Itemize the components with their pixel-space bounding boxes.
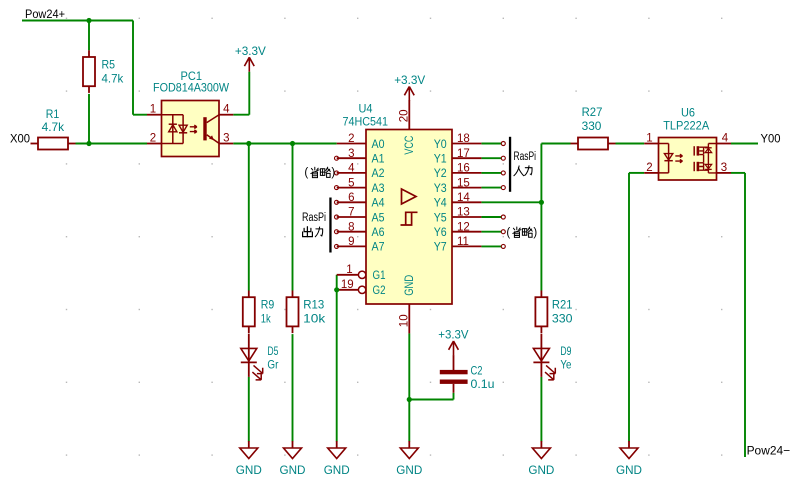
label +3.3V (C2) bbox=[438, 328, 468, 342]
svg-text:): ) bbox=[533, 227, 537, 239]
svg-text:5: 5 bbox=[348, 177, 354, 189]
label C2 bbox=[471, 363, 483, 377]
svg-text:Y6: Y6 bbox=[434, 227, 447, 239]
svg-text:1k: 1k bbox=[261, 312, 272, 326]
pin number 1 U6 bbox=[646, 132, 652, 144]
wire U4 pin10 to GND bbox=[408, 333, 410, 441]
svg-text:4: 4 bbox=[348, 163, 355, 175]
svg-text:Pow24−: Pow24− bbox=[747, 443, 791, 457]
svg-text:3: 3 bbox=[223, 132, 229, 144]
label R21 bbox=[552, 297, 573, 311]
wire R13 to GND bbox=[292, 334, 294, 441]
svg-text:Pow24+: Pow24+ bbox=[25, 7, 65, 21]
pin number 1 PC1 bbox=[150, 104, 156, 116]
wire R5 bottom to node bbox=[88, 94, 90, 144]
U4 pin numbers bbox=[341, 110, 470, 328]
note RasPi out bracket bbox=[329, 198, 331, 253]
svg-text:330: 330 bbox=[552, 312, 573, 326]
svg-text:Y1: Y1 bbox=[434, 154, 447, 166]
svg-text:GND: GND bbox=[404, 275, 416, 296]
label R13 value 10k bbox=[303, 312, 326, 326]
svg-text:10: 10 bbox=[398, 314, 410, 327]
svg-text:X00: X00 bbox=[10, 132, 30, 146]
power +3.3V (C2) bbox=[449, 341, 459, 355]
wire Y4 to node bbox=[481, 201, 541, 203]
junction R1/R5 node bbox=[86, 141, 91, 146]
wire D9 to GND bbox=[540, 377, 542, 442]
svg-text:1: 1 bbox=[346, 264, 352, 276]
svg-text:3: 3 bbox=[721, 162, 727, 174]
svg-text:D9: D9 bbox=[560, 344, 571, 358]
svg-text:20: 20 bbox=[398, 110, 410, 123]
pin number 2 PC1 bbox=[150, 132, 156, 144]
svg-text:A0: A0 bbox=[372, 139, 385, 151]
wire U6 pin2 to GND bbox=[629, 173, 644, 442]
svg-text:9: 9 bbox=[348, 236, 354, 248]
svg-text:13: 13 bbox=[457, 207, 470, 219]
wire corner to PC1 pin1 bbox=[133, 21, 147, 115]
label D5 bbox=[267, 344, 278, 358]
resistor R9 bbox=[243, 291, 255, 334]
optocoupler PC1 bbox=[147, 101, 233, 157]
svg-text:A6: A6 bbox=[372, 227, 385, 239]
svg-text:18: 18 bbox=[457, 133, 470, 145]
pin number 2 U6 bbox=[646, 162, 652, 174]
wire R27 to U6 pin1 bbox=[616, 143, 645, 145]
svg-text:U6: U6 bbox=[681, 105, 695, 119]
svg-text:G1: G1 bbox=[373, 270, 386, 282]
svg-text:4.7k: 4.7k bbox=[42, 120, 65, 134]
label D9 value Ye bbox=[560, 357, 571, 371]
svg-text:GND: GND bbox=[616, 463, 642, 477]
ground GND D9 bbox=[528, 441, 554, 477]
wire node to R13 bbox=[292, 144, 294, 291]
svg-text:TLP222A: TLP222A bbox=[663, 118, 709, 132]
svg-text:GND: GND bbox=[280, 463, 306, 477]
svg-text:14: 14 bbox=[457, 192, 470, 204]
junction Pow24+/R5 bbox=[86, 18, 91, 23]
junction R13 tap bbox=[290, 141, 295, 146]
wire node up to R27 bbox=[541, 144, 570, 203]
power +3.3V (U4) bbox=[404, 87, 414, 101]
svg-text:): ) bbox=[331, 167, 335, 179]
label PC1 bbox=[181, 69, 203, 83]
note RasPi (out) text bbox=[302, 212, 326, 224]
svg-text:G2: G2 bbox=[373, 285, 386, 297]
svg-text:GND: GND bbox=[324, 463, 350, 477]
Y stub end circles bbox=[501, 142, 505, 249]
resistor R5 bbox=[83, 50, 95, 93]
resistor R13 bbox=[287, 291, 299, 334]
label U6 value TLP222A bbox=[663, 118, 709, 132]
label R1 value 4.7k bbox=[42, 120, 65, 134]
label U4 value 74HC541 bbox=[343, 114, 389, 128]
svg-text:R21: R21 bbox=[552, 297, 573, 311]
svg-text:Y5: Y5 bbox=[434, 212, 447, 224]
label U4 bbox=[359, 102, 373, 116]
svg-text:GND: GND bbox=[396, 463, 422, 477]
note kanji input bbox=[514, 166, 532, 176]
pin number 3 PC1 bbox=[223, 132, 229, 144]
label Pow24+ bbox=[25, 7, 65, 21]
wire U6 pin3 to Pow24- bbox=[731, 173, 745, 457]
label C2 value 0.1u bbox=[471, 377, 495, 391]
svg-text:A2: A2 bbox=[372, 168, 385, 180]
label Y00 bbox=[761, 132, 781, 146]
wires RasPi Y stubs bbox=[481, 144, 501, 247]
label +3.3V (U4) bbox=[394, 73, 425, 87]
svg-text:R27: R27 bbox=[582, 105, 603, 119]
svg-text:(: ( bbox=[506, 227, 510, 239]
svg-text:2: 2 bbox=[646, 162, 652, 174]
junction G2/GND bbox=[334, 287, 339, 292]
svg-text:19: 19 bbox=[341, 279, 354, 291]
ground GND U6 pin2 bbox=[616, 441, 642, 477]
wire D5 to GND bbox=[248, 377, 250, 442]
label +3.3V (PC1) bbox=[235, 44, 266, 58]
label R13 bbox=[303, 297, 324, 311]
svg-text:3: 3 bbox=[348, 148, 354, 160]
svg-text:R5: R5 bbox=[102, 57, 116, 71]
ground GND R13 bbox=[280, 441, 306, 477]
svg-text:R9: R9 bbox=[261, 297, 275, 311]
note (shouryaku) right Y6 bbox=[506, 227, 537, 239]
svg-text:Ye: Ye bbox=[560, 357, 571, 371]
svg-text:Y00: Y00 bbox=[761, 132, 781, 146]
U4 unconnected A-pin circles bbox=[335, 156, 339, 248]
power +3.3V (PC1) bbox=[244, 57, 254, 71]
label R21 value 330 bbox=[552, 312, 573, 326]
note kanji output bbox=[303, 227, 323, 237]
svg-text:11: 11 bbox=[457, 236, 469, 248]
svg-text:17: 17 bbox=[457, 148, 470, 160]
svg-text:4.7k: 4.7k bbox=[102, 72, 125, 86]
svg-text:4: 4 bbox=[223, 104, 230, 116]
label R1 bbox=[46, 107, 60, 121]
svg-text:Y0: Y0 bbox=[434, 139, 447, 151]
svg-text:6: 6 bbox=[348, 192, 354, 204]
svg-text:+3.3V: +3.3V bbox=[394, 73, 425, 87]
svg-text:8: 8 bbox=[348, 221, 354, 233]
LED D9 bbox=[533, 334, 555, 380]
svg-text:R1: R1 bbox=[46, 107, 60, 121]
svg-text:Y4: Y4 bbox=[434, 198, 448, 210]
label R9 bbox=[261, 297, 275, 311]
LED D5 bbox=[241, 334, 263, 380]
U4 pin names bbox=[372, 136, 448, 298]
svg-text:74HC541: 74HC541 bbox=[343, 114, 389, 128]
label PC1 value FOD814A300W bbox=[153, 80, 230, 94]
svg-text:A4: A4 bbox=[372, 198, 386, 210]
svg-text:Y3: Y3 bbox=[434, 183, 447, 195]
label Pow24- bbox=[747, 443, 791, 457]
svg-text:Gr: Gr bbox=[267, 357, 278, 371]
wire node down to R21 bbox=[540, 202, 542, 290]
ground GND R9/D5 bbox=[236, 441, 262, 477]
label R5 bbox=[102, 57, 116, 71]
wire Pow24+ horizontal bbox=[22, 20, 133, 22]
label D5 value Gr bbox=[267, 357, 278, 371]
svg-text:C2: C2 bbox=[471, 363, 483, 377]
svg-text:0.1u: 0.1u bbox=[471, 377, 495, 391]
svg-text:4: 4 bbox=[722, 132, 729, 144]
wire PC1 pin3 to U4 A0 bbox=[233, 143, 336, 145]
ground GND G2 bbox=[324, 441, 350, 477]
junction Y4/R27/R21 bbox=[539, 200, 544, 205]
svg-text:A3: A3 bbox=[372, 183, 385, 195]
label D9 bbox=[560, 344, 571, 358]
svg-text:RasPi: RasPi bbox=[302, 212, 326, 224]
label R27 bbox=[582, 105, 603, 119]
svg-text:1: 1 bbox=[150, 104, 156, 116]
svg-text:A1: A1 bbox=[372, 154, 385, 166]
label U6 bbox=[681, 105, 695, 119]
resistor R27 bbox=[571, 138, 616, 150]
svg-text:(: ( bbox=[304, 167, 308, 179]
svg-text:2: 2 bbox=[150, 132, 156, 144]
IC U4 74HC541 bbox=[337, 100, 482, 333]
note RasPi (in) text bbox=[514, 151, 537, 163]
pin number 4 U6 bbox=[722, 132, 729, 144]
svg-text:+3.3V: +3.3V bbox=[438, 328, 468, 342]
svg-text:Y7: Y7 bbox=[434, 242, 447, 254]
junction PC1 out / R9 bbox=[246, 141, 251, 146]
svg-text:1: 1 bbox=[646, 132, 652, 144]
svg-text:A5: A5 bbox=[372, 212, 385, 224]
svg-text:330: 330 bbox=[582, 119, 602, 133]
svg-text:16: 16 bbox=[457, 163, 470, 175]
svg-text:Y2: Y2 bbox=[434, 168, 447, 180]
svg-text:15: 15 bbox=[457, 177, 470, 189]
wire C2 to GND net bbox=[409, 393, 453, 400]
note RasPi in bracket bbox=[509, 137, 511, 192]
wire G2 to GND bbox=[336, 290, 338, 442]
pin number 3 U6 bbox=[721, 162, 727, 174]
wire R5 top bbox=[88, 21, 90, 51]
wire node to R9 bbox=[248, 144, 250, 291]
svg-text:VCC: VCC bbox=[404, 136, 416, 155]
svg-text:12: 12 bbox=[457, 221, 470, 233]
optocoupler U6 TLP222A bbox=[644, 138, 731, 181]
wire PC1 pin4 to +3.3V bbox=[233, 72, 249, 115]
svg-text:A7: A7 bbox=[372, 242, 385, 254]
resistor R21 bbox=[535, 291, 547, 334]
note (shouryaku) left A2 bbox=[304, 167, 335, 179]
resistor R1 bbox=[31, 138, 76, 150]
svg-text:GND: GND bbox=[528, 463, 554, 477]
label X00 bbox=[10, 132, 30, 146]
capacitor C2 bbox=[440, 355, 468, 393]
svg-text:7: 7 bbox=[348, 207, 354, 219]
wire U6 pin4 to Y00 bbox=[731, 143, 758, 145]
wire R1 to PC1 pin2 bbox=[76, 143, 148, 145]
svg-text:GND: GND bbox=[236, 463, 262, 477]
wire G1-G2 tie bbox=[336, 275, 338, 290]
junction C2/GND bbox=[407, 397, 412, 402]
svg-text:D5: D5 bbox=[267, 344, 278, 358]
label R27 value 330 bbox=[582, 119, 602, 133]
label R5 value 4.7k bbox=[102, 72, 125, 86]
svg-text:+3.3V: +3.3V bbox=[235, 44, 266, 58]
svg-text:FOD814A300W: FOD814A300W bbox=[153, 80, 230, 94]
ground GND U4 pin10/C2 bbox=[396, 441, 422, 477]
pin number 4 PC1 bbox=[223, 104, 230, 116]
svg-text:RasPi: RasPi bbox=[514, 151, 537, 163]
svg-text:R13: R13 bbox=[303, 297, 324, 311]
svg-text:10k: 10k bbox=[303, 312, 326, 326]
svg-text:2: 2 bbox=[348, 133, 354, 145]
label R9 value 1k bbox=[261, 312, 272, 326]
